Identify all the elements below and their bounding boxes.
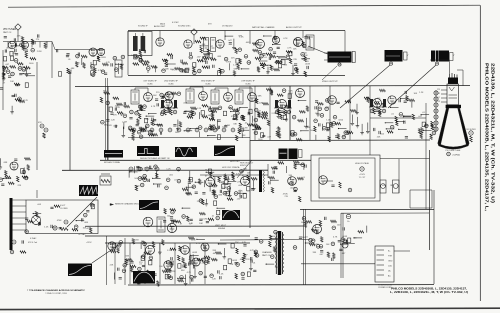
tube V20B hor out [241,177,250,186]
flyback windings [263,171,264,192]
tube V21 HV rect [288,177,297,186]
HV small tubes [381,184,399,189]
caption footnote left [27,289,85,295]
svg-text:470K: 470K [288,93,293,95]
wire tuner drop [36,62,38,170]
svg-text:POWER CORD: POWER CORD [378,287,392,289]
wire long vertical E [106,236,108,285]
svg-text:1.2K: 1.2K [111,120,116,122]
wire hv cage drop [267,164,269,178]
svg-text:1ST VIDEO IF: 1ST VIDEO IF [143,81,157,83]
tuner shield bar [10,198,13,250]
svg-text:22K: 22K [17,35,21,37]
tube V27 damper [181,246,190,255]
focus pot [466,129,476,142]
svg-text:.0033: .0033 [6,48,12,50]
scope photo W8 [222,210,240,220]
svg-text:REMOTE CHASSIS GROUND: REMOTE CHASSIS GROUND [115,203,143,206]
IF stage 2 [183,87,210,137]
hor osc label [230,161,249,167]
svg-text:4.7K: 4.7K [287,47,292,49]
svg-text:+15KV: +15KV [359,174,365,176]
dense cluster D2 [274,100,292,116]
svg-text:470K: 470K [19,67,24,69]
bottom right cluster [223,242,251,279]
HV small tube labels [382,185,393,187]
svg-text:6BH8/A: 6BH8/A [218,227,226,230]
test point TP2 diamond [191,29,197,44]
left edge wire [2,50,4,110]
svg-text:4.5 MC: 4.5 MC [172,22,179,24]
tube V22 damper [319,176,328,185]
socket symbol [32,205,69,225]
svg-text:4.7K: 4.7K [283,38,288,40]
svg-text:SOUND IF: SOUND IF [138,26,148,28]
CRT pin labels [436,89,441,103]
wire mid rail 5 [105,242,250,244]
svg-text:10K: 10K [247,173,251,175]
svg-text:22K: 22K [18,185,22,187]
svg-text:SOUND DISC: SOUND DISC [178,26,191,28]
wire HV rail2 [341,212,429,214]
svg-text:2ND VIDEO IF: 2ND VIDEO IF [164,81,178,83]
wire video vert A [289,86,291,140]
zigzag scope W6 [79,185,98,196]
wire CRT top 1 [430,60,450,74]
svg-text:68K: 68K [218,56,222,58]
svg-text:6CB6: 6CB6 [147,83,153,85]
HV cage parts [324,181,352,192]
tuner mixer cluster [56,49,96,76]
sound cluster B [195,36,251,77]
tuner osc cluster [97,55,124,74]
HV cluster [269,161,307,202]
capacitor can C90A [279,149,288,160]
sound IF box [128,32,152,56]
svg-text:10K: 10K [326,244,330,246]
svg-text:PART OF: PART OF [262,254,271,257]
wire speaker lead 1 [340,65,390,108]
svg-text:.0033: .0033 [245,42,251,44]
svg-text:4.7K: 4.7K [189,223,194,225]
vert blocking transformer T8 [157,217,165,232]
HV box small B [393,180,400,193]
wire sync rail [370,117,426,119]
left column parts [38,122,48,138]
tube V20 hor osc [206,178,215,187]
wire video rail [250,139,430,142]
pilot label [262,251,273,257]
svg-text:33K: 33K [284,65,288,67]
scope photo W7 [139,200,159,210]
svg-text:10K: 10K [175,132,179,134]
svg-text:CLOSED: CLOSED [60,208,68,210]
tuner lower cluster [2,58,36,79]
tube V3 osc [97,48,104,55]
svg-text:1.2K: 1.2K [197,108,202,110]
test point TP1 diamond [15,24,21,42]
svg-text:33K: 33K [181,270,185,272]
svg-text:1.2K: 1.2K [212,279,217,281]
svg-text:1.2K: 1.2K [44,227,49,229]
converter cluster 2 [101,120,127,138]
tube V5B audio [216,40,224,48]
tube V30 sync inv [192,258,200,266]
svg-text:33K: 33K [233,124,237,126]
wire scope lead [92,244,120,263]
svg-text:470K: 470K [144,168,149,170]
svg-text:HOR OSC: HOR OSC [230,161,240,163]
power transformer primary [276,236,278,268]
svg-text:33K: 33K [212,250,216,252]
svg-text:22K: 22K [230,264,234,266]
svg-text:3RD VIDEO IF: 3RD VIDEO IF [201,81,215,83]
svg-text:10K: 10K [304,55,308,57]
svg-text:AUDIO OUTPUT: AUDIO OUTPUT [286,26,302,29]
VHF tuner label [3,29,16,34]
vert cluster [129,165,188,191]
speaker SP2 [431,51,455,66]
svg-text:10K: 10K [414,93,418,95]
IF cluster fill [128,105,194,139]
svg-text:† TOLERANCE CHANGED ACROSS SCH: † TOLERANCE CHANGED ACROSS SCHEMATIC [27,289,85,292]
svg-text:33K: 33K [218,194,222,196]
caption bottom right [390,286,468,294]
svg-text:4.7K: 4.7K [98,70,103,72]
sound xfmr T9 [306,35,314,50]
wire mid rail 6 [85,225,305,227]
hor out label [222,163,254,170]
svg-text:TO CRT: TO CRT [359,177,367,179]
schematic bottom rail [128,284,434,286]
page bottom edge [0,308,500,309]
svg-text:5": 5" [407,55,409,57]
wire sound right drop [344,31,346,61]
wire vert pair tuner [106,78,108,160]
svg-text:HOR OSC 12BH7A: HOR OSC 12BH7A [222,166,240,169]
tuner cluster A [4,34,49,58]
resistor ladder [100,174,111,185]
tube V4 sound IF [156,38,164,46]
sound lower cluster [134,55,250,75]
tube V28 rect [201,243,209,251]
mid cluster 2 [163,208,225,230]
wire CRT left leads [441,90,447,102]
scope photo W1 [104,150,123,158]
svg-text:.0033: .0033 [232,260,238,262]
wire focus rail [301,263,375,265]
HV box small A [380,180,386,193]
power transformer secondary [282,233,284,273]
tube V23 rectifier [313,225,322,234]
wire mid rail 1 [100,159,311,161]
audio output label [286,26,302,29]
svg-text:+135V: +135V [86,242,92,244]
video cluster 1 [252,89,316,142]
svg-text:4 HCT: 4 HCT [60,205,66,207]
svg-text:.0033: .0033 [226,184,232,186]
svg-text:4.7K: 4.7K [242,242,247,244]
video cluster 2 [314,97,370,142]
svg-text:33K: 33K [202,258,206,260]
output transformer T1 core [328,52,352,63]
wire tuner drop2 [69,72,71,170]
dense cluster D1 [160,100,178,116]
svg-text:.0033: .0033 [106,125,112,127]
wire mid rail 2 [62,169,268,171]
svg-text:1.2K: 1.2K [146,180,151,182]
tube V6B sound amp [272,36,279,43]
tube V13 video out [296,89,305,98]
deflection label [140,157,170,160]
svg-text:DEFLECTION AND HV PART OF: DEFLECTION AND HV PART OF [140,157,170,160]
tube V18 keyer [53,220,68,230]
svg-text:6CB6: 6CB6 [205,83,211,85]
tuner detail box [26,200,98,234]
wire HV rail [300,208,434,210]
svg-text:22K: 22K [110,264,114,266]
scope photo W4 [214,146,235,157]
svg-text:.0033: .0033 [305,64,311,66]
left column cluster [0,56,28,114]
svg-text:1.2K: 1.2K [326,120,331,122]
svg-text:33K: 33K [326,107,330,109]
svg-text:L, 22D4139, L, 22D4321L, M, T,: L, 22D4139, L, 22D4321L, M, T, W (Ch. TV… [390,290,468,294]
svg-text:1B3: 1B3 [390,185,393,187]
svg-text:470K: 470K [57,220,62,222]
wire can lead [237,160,252,178]
svg-text:22K: 22K [235,242,239,244]
tube V7 audio out [294,38,303,47]
wire sound top rail [128,30,345,32]
svg-text:68K: 68K [91,69,95,71]
svg-text:68K: 68K [84,222,88,224]
wire video drops [0,0,1,1]
border frame right [479,5,481,301]
sound top labels [138,23,233,28]
keyer cluster [25,203,95,233]
svg-text:1ST AUDIO: 1ST AUDIO [222,25,233,28]
wire bar leads [13,200,27,230]
svg-text:22K: 22K [293,59,297,61]
svg-text:470K: 470K [113,126,118,128]
svg-text:47K 4.7mf: 47K 4.7mf [28,242,38,244]
svg-text:68K: 68K [165,69,169,71]
IF gap cluster [153,92,188,107]
wire vo drops [115,243,205,284]
wire mid rail 4 [85,235,250,237]
tuner coil box [115,60,122,77]
svg-text:5": 5" [453,55,455,57]
svg-text:22K: 22K [197,201,201,203]
svg-text:1.2K: 1.2K [167,250,172,252]
svg-text:470K: 470K [226,62,231,64]
wire terminal lead [394,250,410,252]
svg-text:68K: 68K [258,96,262,98]
svg-text:470K: 470K [238,191,243,193]
svg-text:2.2M: 2.2M [122,122,127,124]
IF extra tube V9 [165,92,174,101]
tube V15 sync [388,96,396,104]
tp b-plus [346,214,350,223]
wire sound left drop [127,31,129,75]
svg-text:1.2K: 1.2K [166,169,171,171]
svg-text:DR SUPER: DR SUPER [466,129,476,131]
svg-text:10K: 10K [134,178,138,180]
voltage labels [30,228,92,244]
scope photo W10 [68,264,92,277]
IF stage 3 [208,88,238,139]
svg-text:HTR: HTR [388,256,393,258]
svg-text:.0033: .0033 [192,252,198,254]
power transformer T7 core [276,231,282,275]
svg-text:470K: 470K [283,193,288,195]
wire video vert B [329,86,331,140]
svg-text:2.2M: 2.2M [67,70,72,72]
svg-text:68K: 68K [213,186,217,188]
tube V26 audio out [108,242,116,250]
svg-text:KEY AGC 120MA: KEY AGC 120MA [104,161,120,164]
wire long vertical B [249,140,251,228]
svg-text:2.2M: 2.2M [202,219,207,221]
terminal strip TB1 [375,246,394,282]
tube V5 sound det [184,40,192,48]
wire tuner rail B [55,49,105,51]
svg-text:2.2M: 2.2M [225,125,230,127]
wire corner box [410,190,432,208]
wire zigzag lead [67,197,97,227]
audio sub cluster [257,52,310,77]
svg-text:VHF TUNER: VHF TUNER [3,29,16,31]
svg-text:+4.2VAC: +4.2VAC [78,233,86,236]
vert mult label [215,225,227,230]
svg-text:HIGH VOLTAGE: HIGH VOLTAGE [355,162,370,165]
tube V1 RF amp [8,41,28,49]
left mid cluster [0,158,31,187]
svg-text:33K: 33K [125,256,129,258]
IF strip top rail [75,86,470,87]
svg-text:VIDEO OUTPUT: VIDEO OUTPUT [322,81,338,83]
remote gnd label [110,203,143,206]
svg-text:PHILCO MODELS 22D4030B, L, 22D: PHILCO MODELS 22D4030B, L, 22D4135, 22D4… [484,63,490,212]
svg-text:1.2K: 1.2K [239,36,244,38]
scope photo W3 [175,147,197,157]
tube V29 vert int [164,261,172,269]
svg-text:68K: 68K [433,127,437,129]
terminal strip caption [378,285,393,290]
sound cluster A [131,49,191,73]
svg-text:G2: G2 [438,93,440,95]
sound takeoff label [154,22,179,28]
scope photo W2 [137,146,159,156]
CRT V16 picture tube [438,73,470,156]
svg-text:4.7K: 4.7K [196,243,201,245]
svg-text:21JP4A: 21JP4A [452,153,460,156]
svg-text:.0033: .0033 [133,240,139,242]
HV below cluster [301,217,367,246]
svg-text:22K: 22K [37,217,41,219]
wire right vert 2 [433,190,435,284]
output transformer leads [322,52,355,81]
wire sound bottom rail [128,75,345,77]
4th video label [104,161,120,164]
vert output cluster [110,237,227,286]
svg-text:2.2M: 2.2M [222,187,227,189]
svg-text:GND: GND [388,261,393,263]
svg-text:33K: 33K [313,252,317,254]
svg-text:PART OF: PART OF [3,31,12,34]
IF stage 4 [232,88,261,138]
HV cage vert [398,159,400,193]
wire CRT top 2 [457,70,463,86]
border frame top [8,5,480,7]
svg-text:10K: 10K [10,81,14,83]
svg-text:2.2M: 2.2M [22,71,27,73]
wire long vertical F [124,238,126,285]
svg-text:10K: 10K [199,223,203,225]
fuse F1 [342,242,348,248]
svg-text:22D4139, L, 22D4321L, M, T, W: 22D4139, L, 22D4321L, M, T, W (Ch. TV-33… [489,63,495,203]
svg-text:4.7K: 4.7K [106,62,111,64]
wire vert pair A [304,209,306,285]
tube V25 vert out [146,246,155,255]
hor cluster [186,169,251,206]
discriminator transformer T10 [204,38,216,52]
tube V14 sync sep [328,96,337,105]
wire cage ext [380,158,430,160]
svg-text:HOR OUTPUT: HOR OUTPUT [240,163,254,165]
tube V24 vert out [167,223,176,232]
wire vert pair B [341,213,343,278]
tube V17 AGC [10,162,18,170]
converter cluster [100,91,129,118]
svg-text:4.7K: 4.7K [245,259,250,261]
wire left drop [36,190,38,198]
svg-text:.0033: .0033 [101,57,107,59]
svg-text:10K: 10K [83,228,87,230]
IF test point row [132,128,244,132]
wire IF vertical 2 [249,86,251,140]
svg-text:6.3VAC: 6.3VAC [30,237,37,240]
svg-text:1.2K: 1.2K [219,273,224,275]
svg-text:4.7K: 4.7K [187,272,192,274]
svg-text:470K: 470K [226,179,231,181]
svg-text:1.2K: 1.2K [275,267,280,269]
flyback T6 core [259,170,262,192]
svg-text:6CB6: 6CB6 [245,83,251,85]
hor out dense [212,170,257,199]
tube V2 mixer [89,48,97,56]
HV label [355,162,370,179]
dense cluster D3 [369,99,387,115]
audio cluster [247,35,309,74]
svg-text:10K: 10K [170,69,174,71]
svg-text:22K: 22K [231,58,235,60]
HV inner box [319,158,375,198]
svg-text:4.7K: 4.7K [151,106,156,108]
scope photo W9 [133,271,155,284]
svg-text:68K: 68K [4,162,8,164]
svg-text:6AU6: 6AU6 [160,23,166,26]
power right cluster [293,236,347,261]
svg-text:6CB6: 6CB6 [168,83,174,85]
wire IF vertical 1 [107,86,109,160]
power cluster [247,230,279,276]
svg-text:22K: 22K [377,136,381,138]
IF stage labels [143,81,255,86]
test point row [129,167,159,171]
wire sound drops [160,31,303,45]
